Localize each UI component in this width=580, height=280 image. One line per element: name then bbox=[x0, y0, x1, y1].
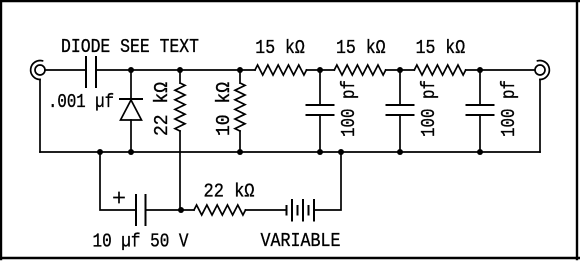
wire R2 to node 3 bbox=[386, 69, 415, 71]
node diode top junction dot bbox=[128, 67, 134, 73]
input jack J1 outer shell arc bbox=[31, 61, 43, 80]
svg-text:10 µf 50 V: 10 µf 50 V bbox=[93, 231, 189, 253]
node bus dot at electrolytic branch bbox=[97, 149, 103, 155]
diode D1 triangle bbox=[121, 100, 142, 120]
wire C2 to bottom bus bbox=[319, 115, 321, 152]
plus sign polarity mark bbox=[114, 193, 124, 203]
node 22k resistor top junction dot bbox=[177, 67, 183, 73]
node 4 junction dot bbox=[477, 67, 483, 73]
border frame top bbox=[0, 0, 580, 2]
output jack J2 outer shell arc bbox=[538, 61, 550, 80]
capacitor C1 .001 uf left plate bbox=[85, 57, 87, 87]
svg-text:100 pf: 100 pf bbox=[418, 80, 440, 137]
border frame bottom bbox=[0, 257, 580, 259]
svg-text:100 pf: 100 pf bbox=[498, 80, 520, 137]
svg-text:DIODE SEE TEXT: DIODE SEE TEXT bbox=[61, 36, 199, 58]
battery BT1 plate long 1 bbox=[291, 200, 293, 221]
capacitor C4 100 pf bottom plate bbox=[467, 114, 494, 116]
wire bottom bus bbox=[40, 151, 540, 153]
node bus dot at C2 bbox=[317, 149, 323, 155]
capacitor C5 10 uf left plate bbox=[135, 195, 137, 225]
capacitor C4 100 pf top wire bbox=[479, 70, 481, 105]
node bus dot at C3 bbox=[397, 149, 403, 155]
wire C3 to bottom bus bbox=[399, 115, 401, 152]
wire battery up to bottom bus bbox=[314, 152, 341, 210]
resistor R1 15 kohm body bbox=[255, 65, 307, 75]
node bias junction dot bbox=[178, 207, 184, 213]
battery BT1 plate long 2 bbox=[302, 200, 304, 221]
wire bus down to electrolytic capacitor bbox=[100, 152, 136, 210]
capacitor C2 100 pf top wire bbox=[319, 70, 321, 105]
node bus dot at diode bbox=[128, 149, 134, 155]
svg-text:100 pf: 100 pf bbox=[338, 80, 360, 137]
wire R4 to battery bbox=[246, 209, 287, 211]
wire diode anode from top rail bbox=[130, 70, 132, 99]
svg-text:VARIABLE: VARIABLE bbox=[261, 230, 341, 252]
border frame right bbox=[576, 0, 578, 259]
capacitor C2 100 pf top plate bbox=[307, 104, 334, 106]
resistor R3 15 kohm body bbox=[414, 65, 465, 75]
wire diode to bottom bus bbox=[130, 120, 132, 152]
battery BT1 plate short 2 bbox=[297, 206, 299, 215]
capacitor C3 100 pf bottom plate bbox=[387, 114, 414, 116]
node 3 junction dot bbox=[397, 67, 403, 73]
svg-text:15 kΩ: 15 kΩ bbox=[416, 37, 466, 59]
wire 22k resistor crossing bus down to bias node bbox=[179, 131, 181, 210]
wire top rail C1 to R1 bbox=[96, 69, 255, 71]
node 2 junction dot bbox=[317, 67, 323, 73]
wire R3 to output jack bbox=[466, 69, 535, 71]
wire input jack pin to C1 bbox=[45, 69, 86, 71]
capacitor C1 .001 uf right plate bbox=[95, 57, 97, 87]
wire C4 to bottom bus bbox=[479, 115, 481, 152]
capacitor C3 100 pf top plate bbox=[387, 104, 414, 106]
resistor 10 kohm vertical body bbox=[235, 70, 245, 131]
wire R1 to node 2 bbox=[307, 69, 335, 71]
wire 10k resistor to bottom bus bbox=[239, 131, 241, 152]
svg-text:.001 µf: .001 µf bbox=[48, 91, 114, 113]
resistor 22 kohm vertical body bbox=[175, 70, 185, 131]
capacitor C5 10 uf right plate bbox=[145, 195, 147, 225]
capacitor C3 100 pf top wire bbox=[399, 70, 401, 105]
svg-text:22 kΩ: 22 kΩ bbox=[151, 82, 173, 136]
battery BT1 variable plate short 1 bbox=[286, 206, 288, 215]
capacitor C2 100 pf bottom plate bbox=[307, 114, 334, 116]
resistor R4 22 kohm body bbox=[194, 205, 246, 215]
battery BT1 plate short 3 bbox=[308, 206, 310, 215]
node bus dot at C4 bbox=[477, 149, 483, 155]
svg-text:15 kΩ: 15 kΩ bbox=[336, 37, 386, 59]
node 10k resistor top junction dot bbox=[237, 67, 243, 73]
wire C5 to bias node bbox=[146, 209, 195, 211]
input jack J1 center pin circle bbox=[35, 65, 45, 75]
diode D1 cathode bar bbox=[120, 98, 142, 100]
wire input jack shell down to bottom bus bbox=[39, 80, 41, 153]
svg-text:22 kΩ: 22 kΩ bbox=[204, 181, 255, 203]
output jack J2 center pin circle bbox=[535, 65, 545, 75]
battery BT1 plate long 3 bbox=[313, 200, 315, 221]
border frame left bbox=[0, 0, 2, 259]
capacitor C4 100 pf top plate bbox=[467, 104, 494, 106]
wire output jack shell down to bottom bus bbox=[539, 80, 541, 153]
node bus dot at battery return bbox=[338, 149, 344, 155]
svg-text:10 kΩ: 10 kΩ bbox=[213, 82, 235, 136]
resistor R2 15 kohm body bbox=[334, 65, 385, 75]
svg-text:15 kΩ: 15 kΩ bbox=[255, 37, 305, 59]
node bus dot at 10k bbox=[237, 149, 243, 155]
